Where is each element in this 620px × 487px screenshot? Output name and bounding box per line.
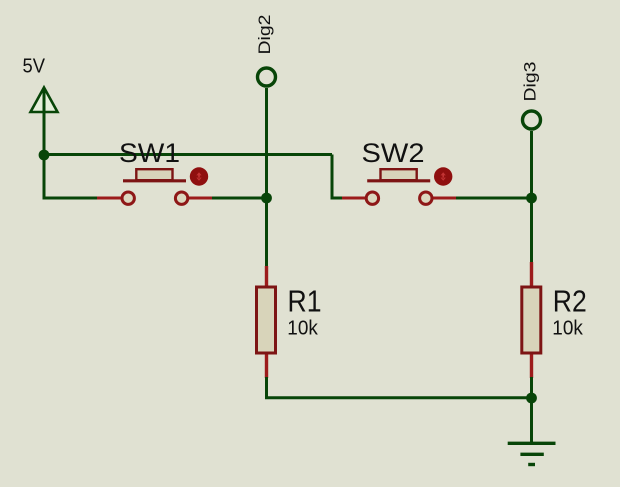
svg-text:R2: R2 — [553, 285, 587, 319]
svg-text:SW1: SW1 — [119, 138, 180, 168]
pin top R1 — [265, 266, 268, 288]
wire horizontal 5V rail to SW2 branch — [43, 153, 333, 156]
actuator bar SW2 — [367, 179, 430, 182]
pin right SW2 — [433, 197, 457, 200]
node junction ground — [526, 393, 537, 404]
terminal circle left SW2 — [366, 192, 378, 204]
button cap SW1 — [136, 169, 172, 180]
button cap SW2 — [381, 169, 417, 180]
switch SW1 — [97, 167, 212, 204]
resistor R2 — [522, 262, 541, 378]
terminal circle left SW1 — [122, 192, 134, 204]
actuator bar SW1 — [123, 179, 186, 182]
wire bottom horizontal rail — [265, 396, 532, 399]
wire 5V vertical shaft — [43, 88, 46, 200]
wire SW1 right pin to node — [211, 197, 267, 200]
pin left SW1 — [97, 197, 121, 200]
resistor R1 — [257, 266, 276, 378]
svg-text:10k: 10k — [287, 317, 318, 339]
wire R1 bottom to ground rail — [265, 377, 268, 399]
wire vertical branch down to SW2 — [331, 155, 334, 200]
svg-text:Dig3: Dig3 — [521, 62, 540, 102]
toggle button SW2 — [434, 167, 452, 185]
wire ground stem — [530, 398, 533, 443]
node junction SW1/Dig2/R1 — [261, 193, 272, 204]
pin bottom R1 — [265, 352, 268, 378]
svg-text:Dig2: Dig2 — [255, 15, 274, 55]
terminal circle right SW1 — [175, 192, 187, 204]
terminal circle right SW2 — [420, 192, 432, 204]
power symbol 5V — [31, 88, 58, 113]
wire Dig3 down through node to R2 — [530, 131, 533, 263]
wire R2 bottom to node — [530, 377, 533, 398]
toggle button SW1 — [190, 167, 208, 185]
wire corner to SW1 left pin — [44, 197, 98, 200]
svg-text:5V: 5V — [23, 55, 46, 77]
wire branch to SW2 left pin — [332, 197, 344, 200]
svg-text:SW2: SW2 — [362, 138, 425, 168]
node junction at 5V rail — [39, 150, 50, 161]
terminal Dig3 — [523, 111, 541, 129]
ground — [508, 443, 556, 464]
terminal Dig2 — [258, 68, 276, 86]
svg-text:R1: R1 — [288, 285, 322, 319]
body R1 — [257, 287, 276, 353]
body R2 — [522, 287, 541, 353]
switch SW2 — [342, 167, 457, 204]
pin top R2 — [530, 262, 533, 288]
wire SW2 right pin to node — [456, 197, 533, 200]
node junction SW2/Dig3/R2 — [526, 193, 537, 204]
wire Dig2 down through node to R1 — [265, 88, 268, 267]
pin bottom R2 — [530, 352, 533, 378]
pin left SW2 — [342, 197, 366, 200]
svg-text:10k: 10k — [552, 317, 583, 339]
pin right SW1 — [189, 197, 212, 200]
